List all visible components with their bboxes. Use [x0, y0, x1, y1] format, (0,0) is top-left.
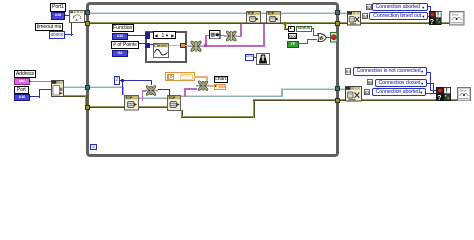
arrow Function terminal: [127, 34, 129, 36]
unflatten node 2: [196, 79, 210, 93]
constant 2: [114, 76, 120, 85]
Wait Until Next ms Multiple VI: [256, 53, 270, 65]
svg-text:TCP: TCP: [168, 96, 176, 100]
flatten node 3: [188, 39, 204, 54]
enum constant Connection is not connected: [353, 67, 428, 76]
TCP Write VI: [246, 11, 261, 24]
TCP Read VI top: [266, 11, 281, 24]
wire sine out: [168, 45, 180, 47]
junction dot blue: [121, 79, 124, 82]
wire teal top run: [90, 12, 335, 14]
string length box: [209, 30, 221, 40]
wire flatten magenta long: [204, 45, 265, 47]
enum constant Connection closed: [375, 79, 428, 87]
TCP Read VI 1: [124, 95, 139, 111]
label stop: [288, 33, 297, 40]
svg-text:TCP: TCP: [267, 12, 275, 16]
tunnel sine output orange: [180, 43, 186, 48]
terminal Port1 U16: [51, 12, 65, 20]
arrow Port terminal: [29, 96, 31, 98]
wire Port1 to listener: [65, 15, 70, 16]
cast node 4: [224, 29, 239, 43]
tunnels on loop edges: [85, 10, 90, 15]
error report VI bottom: [457, 87, 471, 102]
wire teal TCP Open into loop: [64, 86, 124, 88]
svg-text:Error: Error: [452, 12, 459, 16]
wire status to or: [311, 28, 315, 29]
svg-text:?: ?: [430, 19, 434, 25]
label Function: [112, 24, 134, 32]
arrow Port1 terminal: [64, 14, 66, 16]
TCP Open Connection VI: [51, 80, 64, 97]
unbundle by name: [288, 26, 295, 32]
enum wires bottom: [427, 72, 430, 73]
wire typecast out blue: [158, 89, 171, 90]
wire teal between TCP read VIs: [139, 97, 167, 99]
terminal Address abc: [14, 78, 30, 85]
while loop: [86, 2, 339, 157]
TCP Close Connection VI top: [347, 11, 361, 26]
wire Port to TCP Open: [30, 96, 40, 97]
type cast node 1: [144, 84, 158, 97]
wire Address to TCP Open: [30, 81, 52, 83]
terminal stop TF: [287, 41, 299, 48]
wire stop to or: [299, 43, 308, 44]
TCP Create Listener VI: [69, 10, 85, 23]
svg-text:!: !: [446, 88, 448, 94]
label # of Points: [111, 41, 139, 49]
simple error handler VI top: [429, 11, 442, 25]
case selector terminal: [145, 32, 150, 39]
terminal chart DBL: [214, 84, 227, 91]
junction dot magenta: [204, 44, 207, 47]
label timeout ms: [35, 23, 63, 31]
enum constant Connection aborted bottom: [372, 88, 427, 96]
or gate: [317, 33, 327, 43]
wire yellow top run: [90, 22, 335, 24]
label Port: [14, 86, 29, 94]
cluster constant 0 0.00: [165, 72, 195, 81]
terminal Port U16: [14, 94, 30, 102]
wire 60000 to listener: [64, 34, 73, 35]
label chart: [214, 76, 229, 84]
TCP Read VI 2: [167, 95, 181, 111]
svg-text:!: !: [437, 13, 439, 19]
wire yellow TCP Open into loop: [64, 95, 87, 97]
wire error branch to unbundle: [284, 23, 286, 29]
label Address: [14, 70, 36, 78]
constant 60000: [49, 31, 65, 39]
constant 100: [245, 54, 255, 61]
loop condition terminal: [330, 32, 338, 43]
wire VI2 data magenta: [184, 88, 186, 97]
svg-text:?: ?: [437, 95, 441, 101]
terminal Function U16: [112, 33, 128, 40]
label Port1: [50, 3, 66, 12]
wire cluster orange: [194, 76, 208, 78]
Sine Pattern VI: [153, 43, 169, 58]
iteration terminal i: [90, 144, 97, 150]
tunnel points input: [145, 43, 150, 48]
svg-text:Error: Error: [460, 88, 467, 92]
svg-text:TCP: TCP: [247, 12, 255, 16]
status name box: [296, 26, 312, 32]
simple error handler VI bottom: [436, 87, 451, 101]
error report VI top: [449, 11, 465, 26]
TCP Close Connection VI bottom: [345, 86, 362, 102]
wire or to condition: [326, 37, 331, 38]
wire yellow between TCP read VIs: [139, 106, 167, 108]
wire 100 to wait: [254, 57, 257, 58]
junction dot yellow: [283, 22, 286, 25]
svg-text:TCP: TCP: [125, 96, 133, 100]
arrow Address terminal: [29, 80, 31, 82]
case selector label: [153, 31, 177, 39]
wire yellow out of loop: [181, 110, 183, 118]
enum constant Connection aborted top: [372, 3, 429, 11]
wire VI1 data magenta: [142, 90, 144, 101]
arrow Points terminal: [127, 51, 129, 53]
wire 2-const branches: [119, 80, 123, 81]
wire unflatten out to chart: [210, 85, 215, 87]
wire teal out of loop: [181, 95, 283, 97]
wire Function to case selector: [128, 35, 146, 36]
terminal # of Points I32: [112, 50, 128, 57]
case structure: [145, 31, 187, 63]
enum constant Connection timed out: [369, 12, 428, 20]
wire points to case tunnel: [139, 43, 147, 44]
enum wires top: [428, 6, 431, 7]
